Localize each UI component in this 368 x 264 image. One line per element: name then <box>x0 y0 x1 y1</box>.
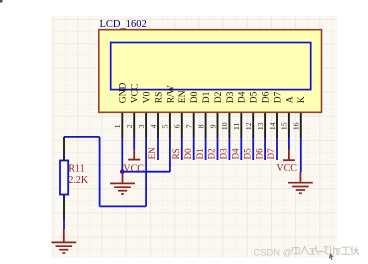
pin 14 (D7) stub <box>276 113 278 138</box>
pin 9 (D2) stub <box>217 113 219 138</box>
svg-text:D7: D7 <box>266 148 276 159</box>
pin 8 name D1 <box>202 91 212 103</box>
svg-text:V0: V0 <box>143 91 153 103</box>
wire pin15 A down <box>288 138 290 150</box>
pin 5 (R/W) stub <box>169 113 171 138</box>
pin 2 name VCC <box>131 84 141 104</box>
wire R11 bottom to ground <box>63 218 65 229</box>
pin 10 name D3 <box>226 91 236 103</box>
resistor R11 bottom pin <box>63 195 65 219</box>
pin 1 (GND) stub <box>121 113 123 138</box>
svg-text:D1: D1 <box>195 148 205 159</box>
pin 2 (VCC) stub <box>133 113 135 138</box>
pin 6 (EN) stub <box>181 113 183 138</box>
net label D1 <box>195 148 205 159</box>
pin 13 number <box>256 122 265 130</box>
pin 9 name D2 <box>214 91 224 103</box>
wire pin14 net D7 <box>276 138 278 161</box>
svg-text:R11: R11 <box>68 163 84 174</box>
wire pin6 net RS <box>181 138 183 161</box>
pin 16 (K) stub <box>300 113 302 138</box>
pin 4 name RS <box>154 92 164 104</box>
resistor R11 body <box>60 161 68 195</box>
pin 8 (D1) stub <box>205 113 207 138</box>
svg-text:15: 15 <box>280 122 289 130</box>
svg-text:7: 7 <box>185 124 194 128</box>
svg-text:D3: D3 <box>226 91 236 103</box>
ground symbol at GND rail (pin1) <box>110 172 135 194</box>
wire V0 bottom horizontal <box>100 205 147 207</box>
pin 3 name V0 <box>143 91 153 103</box>
svg-text:14: 14 <box>268 122 277 130</box>
svg-text:3: 3 <box>137 124 146 128</box>
net label D4 <box>231 148 241 159</box>
designator LCD_1602 <box>100 19 147 30</box>
mouse cursor icon <box>329 253 334 260</box>
net label D6 <box>254 148 264 159</box>
component LCD_1602 body <box>99 30 322 113</box>
resistor R11 top pin <box>63 137 65 161</box>
svg-text:5: 5 <box>161 124 170 128</box>
wire pin5 R/W down to GND rail <box>169 138 171 173</box>
svg-text:D0: D0 <box>183 148 193 159</box>
pin 16 number <box>292 122 301 130</box>
pin 10 number <box>220 122 229 130</box>
svg-text:VCC: VCC <box>276 163 297 174</box>
pin 11 name D4 <box>238 91 248 103</box>
pin 14 name D7 <box>273 91 283 103</box>
pin 15 (A) stub <box>288 113 290 138</box>
svg-text:D5: D5 <box>242 148 252 159</box>
resistor designator R11 <box>68 163 84 174</box>
pin 1 name GND <box>119 82 129 103</box>
pin 15 number <box>280 122 289 130</box>
svg-text:1: 1 <box>113 124 122 128</box>
pin 12 number <box>244 122 253 130</box>
pin 12 (D5) stub <box>252 113 254 138</box>
pin 12 name D5 <box>250 91 260 103</box>
svg-text:8: 8 <box>196 124 205 128</box>
svg-text:A: A <box>285 96 295 103</box>
svg-text:9: 9 <box>208 124 217 128</box>
svg-text:D7: D7 <box>273 91 283 103</box>
ground symbol at pin16 K <box>288 172 313 193</box>
pin 9 number <box>208 124 217 128</box>
resistor value 2.2K <box>68 175 89 186</box>
pin 1 number <box>113 124 122 128</box>
pin 5 name R/W <box>166 85 176 103</box>
wire pin3 V0 down <box>145 138 147 207</box>
power port VCC at pin15 <box>276 149 297 174</box>
pin 8 number <box>196 124 205 128</box>
pin 6 number <box>173 124 182 128</box>
pin 16 name K <box>297 96 307 103</box>
svg-text:GND: GND <box>119 82 129 103</box>
svg-text:D4: D4 <box>231 148 241 159</box>
wire pin12 net D5 <box>252 138 254 161</box>
pin 3 (V0) stub <box>145 113 147 138</box>
pin 7 number <box>185 124 194 128</box>
svg-text:VCC: VCC <box>123 164 144 175</box>
pin 11 (D4) stub <box>240 113 242 138</box>
svg-text:D2: D2 <box>207 148 217 159</box>
wire pin2 VCC down <box>133 138 135 150</box>
net label D7 <box>266 148 276 159</box>
net label EN <box>147 147 157 159</box>
svg-text:12: 12 <box>244 122 253 130</box>
svg-text:13: 13 <box>256 122 265 130</box>
watermark CSDN text <box>254 247 293 258</box>
svg-text:D3: D3 <box>219 148 229 159</box>
junction dot GND rail <box>120 169 125 174</box>
ground symbol below R11 <box>51 229 76 253</box>
svg-text:10: 10 <box>220 122 229 130</box>
svg-text:4: 4 <box>149 124 158 128</box>
svg-text:RS: RS <box>154 92 164 104</box>
pin 6 name EN <box>178 90 188 103</box>
wire GND rail horizontal <box>122 171 170 173</box>
svg-text:R/W: R/W <box>166 85 176 103</box>
wire pin11 net D4 <box>240 138 242 161</box>
wire pin13 net D6 <box>264 138 266 161</box>
net label D2 <box>207 148 217 159</box>
pin 7 (D0) stub <box>193 113 195 138</box>
svg-text:K: K <box>297 96 307 103</box>
LCD screen rectangle <box>111 43 311 90</box>
wire pin8 net D1 <box>205 138 207 161</box>
wire pin1 GND down to junction <box>121 138 123 173</box>
svg-text:D0: D0 <box>190 91 200 103</box>
pin 13 name D6 <box>262 91 272 103</box>
svg-text:11: 11 <box>232 122 241 130</box>
pin 5 number <box>161 124 170 128</box>
net label D0 <box>183 148 193 159</box>
wire pin10 net D3 <box>228 138 230 161</box>
svg-text:VCC: VCC <box>131 84 141 104</box>
pin 10 (D3) stub <box>228 113 230 138</box>
pin 13 (D6) stub <box>264 113 266 138</box>
svg-text:D5: D5 <box>250 91 260 103</box>
pin 2 number <box>125 124 134 128</box>
pin 14 number <box>268 122 277 130</box>
wire V0 top horizontal to R11 <box>64 136 100 138</box>
pin 11 number <box>232 122 241 130</box>
pin 15 name A <box>285 96 295 103</box>
svg-text:2.2K: 2.2K <box>68 175 89 186</box>
svg-text:D1: D1 <box>202 91 212 103</box>
pin 4 number <box>149 124 158 128</box>
svg-text:LCD_1602: LCD_1602 <box>100 19 147 30</box>
pin 7 name D0 <box>190 91 200 103</box>
wire pin16 K down to ground <box>300 138 302 173</box>
wire pin4 net EN <box>157 138 159 161</box>
net label D3 <box>219 148 229 159</box>
net label D5 <box>242 148 252 159</box>
pin 3 number <box>137 124 146 128</box>
svg-text:6: 6 <box>173 124 182 128</box>
svg-text:D6: D6 <box>262 91 272 103</box>
svg-text:D2: D2 <box>214 91 224 103</box>
svg-text:D4: D4 <box>238 91 248 103</box>
svg-text:16: 16 <box>292 122 301 130</box>
wire V0 left vertical <box>99 137 101 207</box>
svg-text:CSDN @: CSDN @ <box>254 247 293 258</box>
svg-text:D6: D6 <box>254 148 264 159</box>
power port VCC at pin2 <box>123 150 144 175</box>
svg-text:EN: EN <box>178 90 188 103</box>
svg-text:EN: EN <box>147 147 157 159</box>
pin 4 (RS) stub <box>157 113 159 138</box>
wire pin7 net D0 <box>193 138 195 161</box>
watermark CJK glyph strokes <box>292 246 359 255</box>
svg-text:RS: RS <box>171 148 181 159</box>
wire pin9 net D2 <box>217 138 219 161</box>
svg-text:2: 2 <box>125 124 134 128</box>
net label RS <box>171 148 181 159</box>
